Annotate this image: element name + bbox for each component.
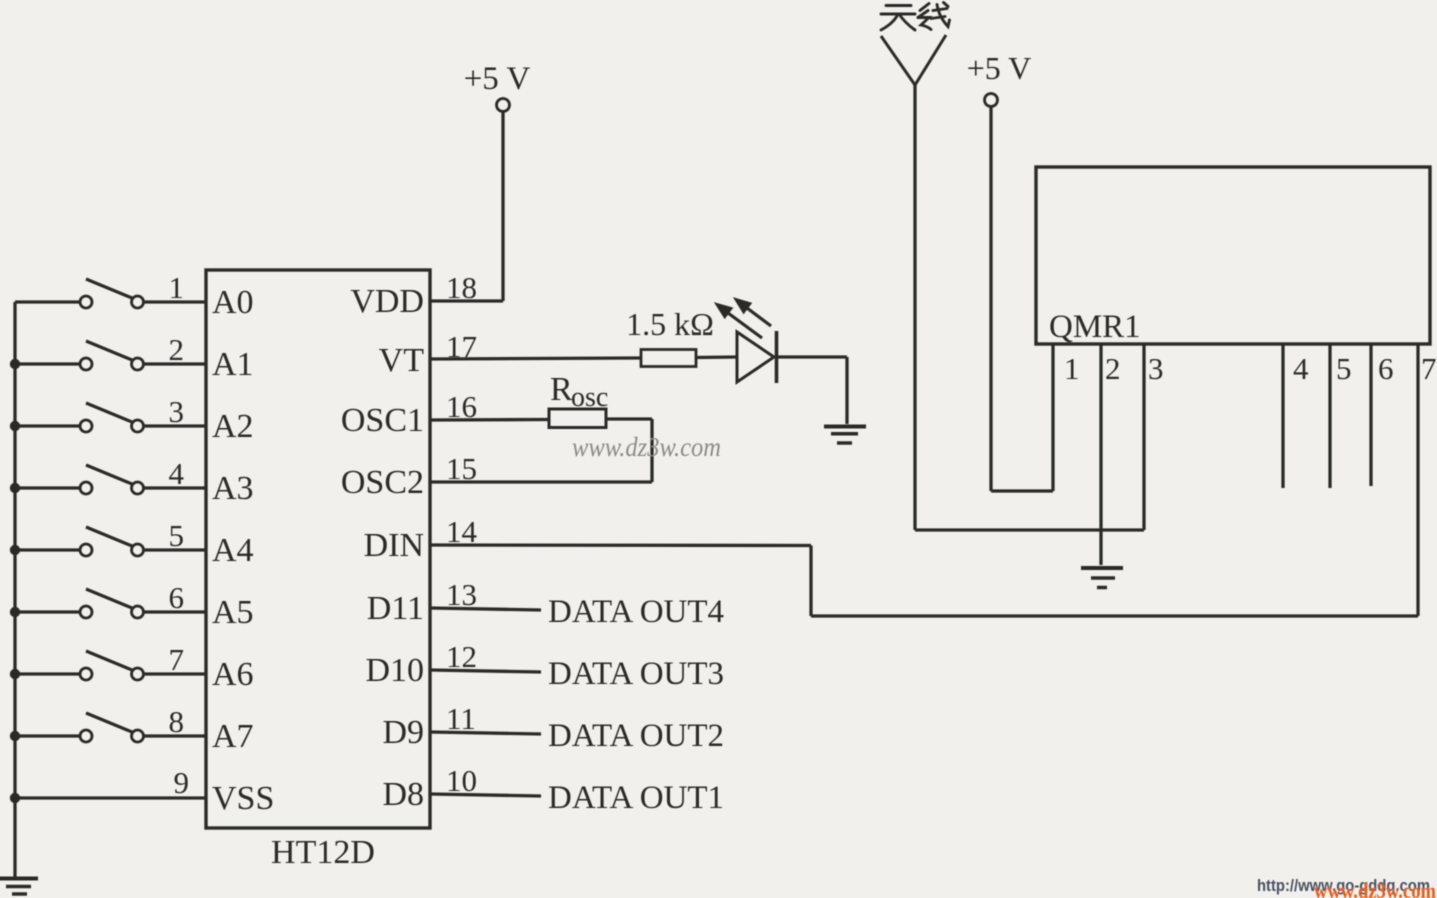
node junction dot bus/A5 (10, 607, 20, 617)
svg-text:7: 7 (1421, 351, 1437, 386)
resistor Rosc label (550, 371, 608, 413)
switch S6 (address A5 DIP switch, pin 6 wire) (15, 589, 206, 618)
wire DIN pin 14 to QMR1 pin 7 (430, 344, 1418, 616)
wire QMR1 pin 4 stub (1281, 344, 1284, 488)
wire DATA OUT2 (430, 732, 541, 734)
wire QMR1 pin 5 stub (1328, 344, 1331, 488)
svg-text:6: 6 (169, 580, 185, 615)
svg-text:1: 1 (169, 270, 185, 305)
svg-text:A7: A7 (212, 718, 254, 755)
svg-text:A0: A0 (212, 284, 254, 321)
wire QMR1 pin 2 to ground (1099, 344, 1102, 565)
wire DATA OUT4 (430, 608, 541, 610)
svg-text:VDD: VDD (350, 283, 424, 320)
svg-text:QMR1: QMR1 (1049, 309, 1141, 345)
resistor Rosc body (549, 409, 606, 428)
svg-text:3: 3 (1148, 351, 1164, 386)
node junction dot bus/A7 (10, 731, 20, 741)
svg-text:www.dz3w.com: www.dz3w.com (572, 432, 721, 462)
svg-text:R: R (550, 371, 573, 408)
LED D1 cathode bar (775, 331, 779, 383)
wire Rosc to OSC2 pin 15 (430, 419, 652, 482)
svg-text:A6: A6 (212, 656, 254, 693)
wire resistor to LED (696, 355, 737, 359)
wire LED to ground (778, 357, 847, 424)
LED D1 arrow 1 (715, 303, 762, 338)
node junction dot bus/A1 (10, 359, 20, 369)
node junction dot bus/VSS (10, 793, 20, 803)
svg-text:3: 3 (169, 394, 185, 429)
wire QMR1 pin 3 stub (1142, 344, 1145, 530)
power +5V terminal (right) (985, 94, 998, 107)
wire DATA OUT1 (430, 794, 541, 796)
svg-text:1: 1 (1064, 351, 1080, 386)
svg-text:9: 9 (174, 765, 190, 800)
switch S8 (address A7 DIP switch, pin 8 wire) (15, 713, 206, 742)
svg-text:5: 5 (169, 518, 185, 553)
resistor R1 1.5k body (641, 350, 696, 367)
svg-text:DATA OUT2: DATA OUT2 (548, 718, 724, 754)
switch S5 (address A4 DIP switch, pin 5 wire) (15, 527, 206, 556)
switch S4 (address A3 DIP switch, pin 4 wire) (15, 465, 206, 494)
svg-text:D10: D10 (365, 652, 424, 689)
svg-text:+5 V: +5 V (967, 50, 1032, 86)
node junction dot bus/A6 (10, 669, 20, 679)
svg-text:OSC1: OSC1 (341, 402, 424, 439)
svg-text:VT: VT (379, 342, 425, 379)
svg-text:A1: A1 (212, 346, 254, 383)
svg-text:OSC2: OSC2 (341, 464, 424, 501)
svg-text:2: 2 (169, 332, 185, 367)
power +5V terminal (left) (497, 99, 510, 112)
op-amp U1 HT12D decoder IC body (206, 270, 430, 828)
svg-text:A4: A4 (212, 532, 254, 569)
svg-text:6: 6 (1378, 351, 1394, 386)
svg-text:osc: osc (571, 382, 608, 413)
svg-text:DATA OUT4: DATA OUT4 (548, 594, 724, 630)
wire +5V to VDD pin 18 (430, 112, 503, 302)
LED D1 triangle (737, 332, 774, 382)
node junction dot bus/A2 (10, 421, 20, 431)
node junction dot bus/A4 (10, 545, 20, 555)
switch S1 (address A0 DIP switch, pin 1 wire) (15, 279, 206, 308)
svg-text:DIN: DIN (364, 527, 424, 564)
svg-text:8: 8 (169, 704, 185, 739)
wire left address bus vertical rail (13, 302, 16, 877)
wire OSC1 pin 16 to Rosc (430, 418, 550, 422)
svg-text:A2: A2 (212, 408, 254, 445)
switch S2 (address A1 DIP switch, pin 2 wire) (15, 341, 206, 370)
wire VT pin 17 to resistor (430, 358, 641, 359)
svg-text:4: 4 (1293, 351, 1309, 386)
wire DATA OUT3 (430, 670, 541, 672)
wire QMR1 pin 6 stub (1369, 344, 1372, 486)
svg-text:DATA OUT1: DATA OUT1 (548, 780, 724, 816)
wire VSS pin 9 to bus (15, 796, 206, 799)
antenna label (CJK tian-xian) (881, 3, 950, 31)
svg-text:DATA OUT3: DATA OUT3 (548, 656, 724, 692)
svg-text:A3: A3 (212, 470, 254, 507)
ground G1 (left bus ground) (0, 879, 38, 895)
switch S3 (address A2 DIP switch, pin 3 wire) (15, 403, 206, 432)
svg-text:1.5 kΩ: 1.5 kΩ (626, 306, 714, 342)
antenna ANT symbol (881, 35, 946, 530)
switch S7 (address A6 DIP switch, pin 7 wire) (15, 651, 206, 680)
svg-text:+5 V: +5 V (464, 61, 531, 97)
wire antenna to QMR1 pin 3 (915, 528, 1144, 531)
svg-text:A5: A5 (212, 594, 254, 631)
ground G3 (QMR1 pin 2 ground) (1081, 568, 1123, 588)
LED D1 arrow 2 (734, 298, 771, 326)
svg-text:5: 5 (1336, 351, 1352, 386)
svg-text:HT12D: HT12D (271, 834, 375, 871)
module QMR1 RF receiver body (1036, 167, 1430, 344)
svg-text:2: 2 (1105, 351, 1121, 386)
svg-text:www.dz3w.com: www.dz3w.com (1314, 878, 1436, 898)
node junction dot bus/A3 (10, 483, 20, 493)
svg-text:VSS: VSS (212, 780, 274, 817)
svg-text:D9: D9 (382, 714, 424, 751)
svg-text:7: 7 (169, 642, 185, 677)
svg-text:D8: D8 (382, 776, 424, 813)
ground G2 (LED ground) (824, 427, 866, 444)
wire +5V to QMR1 pin 1 (991, 107, 1053, 492)
svg-text:4: 4 (169, 456, 185, 491)
svg-text:D11: D11 (367, 590, 424, 627)
